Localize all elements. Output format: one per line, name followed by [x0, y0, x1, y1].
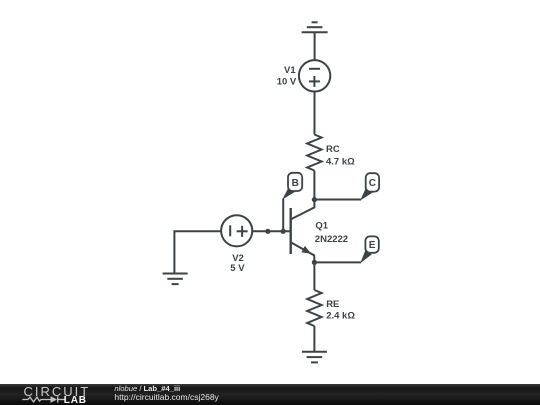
svg-text:http://circuitlab.com/csj268y: http://circuitlab.com/csj268y	[114, 392, 219, 402]
svg-text:LAB: LAB	[64, 395, 87, 405]
node E junction dot	[312, 260, 317, 265]
wire emitter node to flag E	[314, 261, 361, 263]
node junction dot (V2 pin)	[265, 229, 270, 234]
svg-text:10 V: 10 V	[277, 77, 297, 88]
wire V2 to base	[252, 230, 291, 232]
svg-text:2N2222: 2N2222	[315, 234, 348, 245]
svg-text:RC: RC	[326, 144, 340, 155]
resistor RE	[307, 290, 321, 326]
ground GND bottom	[302, 352, 327, 363]
svg-text:B: B	[292, 178, 299, 189]
wire V1 to RC	[314, 92, 316, 135]
voltage source V2 5 V	[221, 215, 252, 246]
resistor RC	[307, 135, 321, 171]
wire RE to ground	[313, 326, 315, 352]
ground GND top (flipped, above V1)	[302, 22, 328, 32]
ground GND left	[163, 274, 188, 285]
svg-text:4.7 kΩ: 4.7 kΩ	[326, 157, 355, 168]
svg-text:5 V: 5 V	[230, 263, 245, 274]
node B junction dot	[281, 229, 286, 234]
footer bar	[0, 384, 540, 405]
voltage source V1 10 V	[299, 60, 330, 91]
svg-text:Q1: Q1	[315, 220, 328, 231]
wire flag B to base	[282, 199, 284, 232]
wire RC to collector node	[313, 171, 315, 200]
transistor Q1 2N2222	[291, 200, 315, 263]
svg-text:C: C	[369, 178, 376, 189]
flag E	[360, 236, 379, 263]
wire node to flag C	[314, 199, 361, 201]
node C junction dot	[312, 197, 317, 202]
svg-text:RE: RE	[326, 299, 339, 310]
flag C	[360, 173, 379, 200]
svg-text:2.4 kΩ: 2.4 kΩ	[326, 311, 355, 322]
flag B	[282, 173, 302, 200]
wire V2 left to ground	[174, 231, 221, 273]
svg-text:V1: V1	[284, 65, 296, 76]
wire top ground to V1	[314, 32, 316, 60]
svg-text:E: E	[369, 240, 376, 251]
wire emitter node to RE	[313, 262, 315, 290]
logo resistor-diode glyph	[22, 396, 64, 402]
